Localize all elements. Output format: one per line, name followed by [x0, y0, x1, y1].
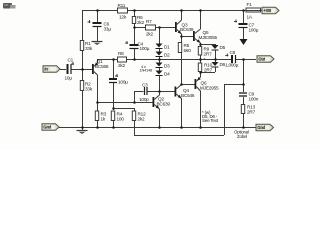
svg-text:MJE3055: MJE3055	[199, 35, 218, 40]
svg-text:Out: Out	[258, 57, 265, 62]
svg-text:Zobel: Zobel	[237, 134, 247, 139]
svg-text:D6: D6	[220, 62, 226, 67]
svg-text:100µ: 100µ	[140, 46, 150, 51]
svg-text:100n: 100n	[249, 97, 259, 102]
svg-text:R8: R8	[118, 51, 124, 56]
svg-text:33k: 33k	[85, 87, 93, 92]
svg-text:BC546: BC546	[181, 93, 195, 98]
svg-text:BC639: BC639	[157, 102, 171, 107]
svg-text:D1: D1	[164, 44, 170, 49]
svg-text:D3: D3	[164, 63, 170, 68]
svg-text:C8: C8	[230, 50, 236, 55]
svg-text:BC558: BC558	[95, 64, 109, 69]
svg-text:Gnd: Gnd	[257, 125, 265, 130]
svg-text:C3: C3	[142, 83, 148, 88]
svg-text:C1: C1	[68, 58, 74, 63]
svg-text:MJE2955: MJE2955	[200, 85, 219, 90]
svg-text:33k: 33k	[85, 46, 93, 51]
svg-text:1N4148: 1N4148	[140, 68, 152, 73]
svg-text:BC639: BC639	[180, 27, 194, 32]
svg-text:1,000µ: 1,000µ	[225, 63, 239, 68]
svg-text:D2: D2	[164, 53, 170, 58]
svg-text:2k2: 2k2	[146, 32, 154, 37]
svg-text:33µ: 33µ	[104, 27, 112, 32]
svg-text:2k2: 2k2	[137, 20, 145, 25]
svg-text:100µ: 100µ	[249, 28, 259, 33]
svg-text:2k2: 2k2	[138, 117, 146, 122]
svg-text:+VB: +VB	[263, 8, 271, 13]
svg-text:100: 100	[117, 117, 125, 122]
svg-text:See Text: See Text	[202, 118, 219, 123]
svg-text:10µ: 10µ	[65, 76, 73, 81]
svg-text:2R7: 2R7	[204, 52, 213, 57]
svg-text:2k2: 2k2	[118, 63, 126, 68]
svg-text:R11: R11	[118, 3, 126, 8]
svg-text:2R7: 2R7	[204, 68, 213, 73]
svg-text:560: 560	[184, 48, 192, 53]
svg-text:D4: D4	[164, 72, 170, 77]
svg-text:12k: 12k	[119, 15, 127, 20]
svg-text:R7: R7	[146, 19, 152, 24]
svg-text:2R7: 2R7	[247, 110, 256, 115]
svg-text:100µ: 100µ	[118, 80, 128, 85]
svg-text:D5: D5	[220, 45, 226, 50]
svg-text:F1: F1	[247, 2, 253, 7]
svg-text:Gnd: Gnd	[43, 125, 51, 130]
svg-text:100p: 100p	[139, 97, 149, 102]
